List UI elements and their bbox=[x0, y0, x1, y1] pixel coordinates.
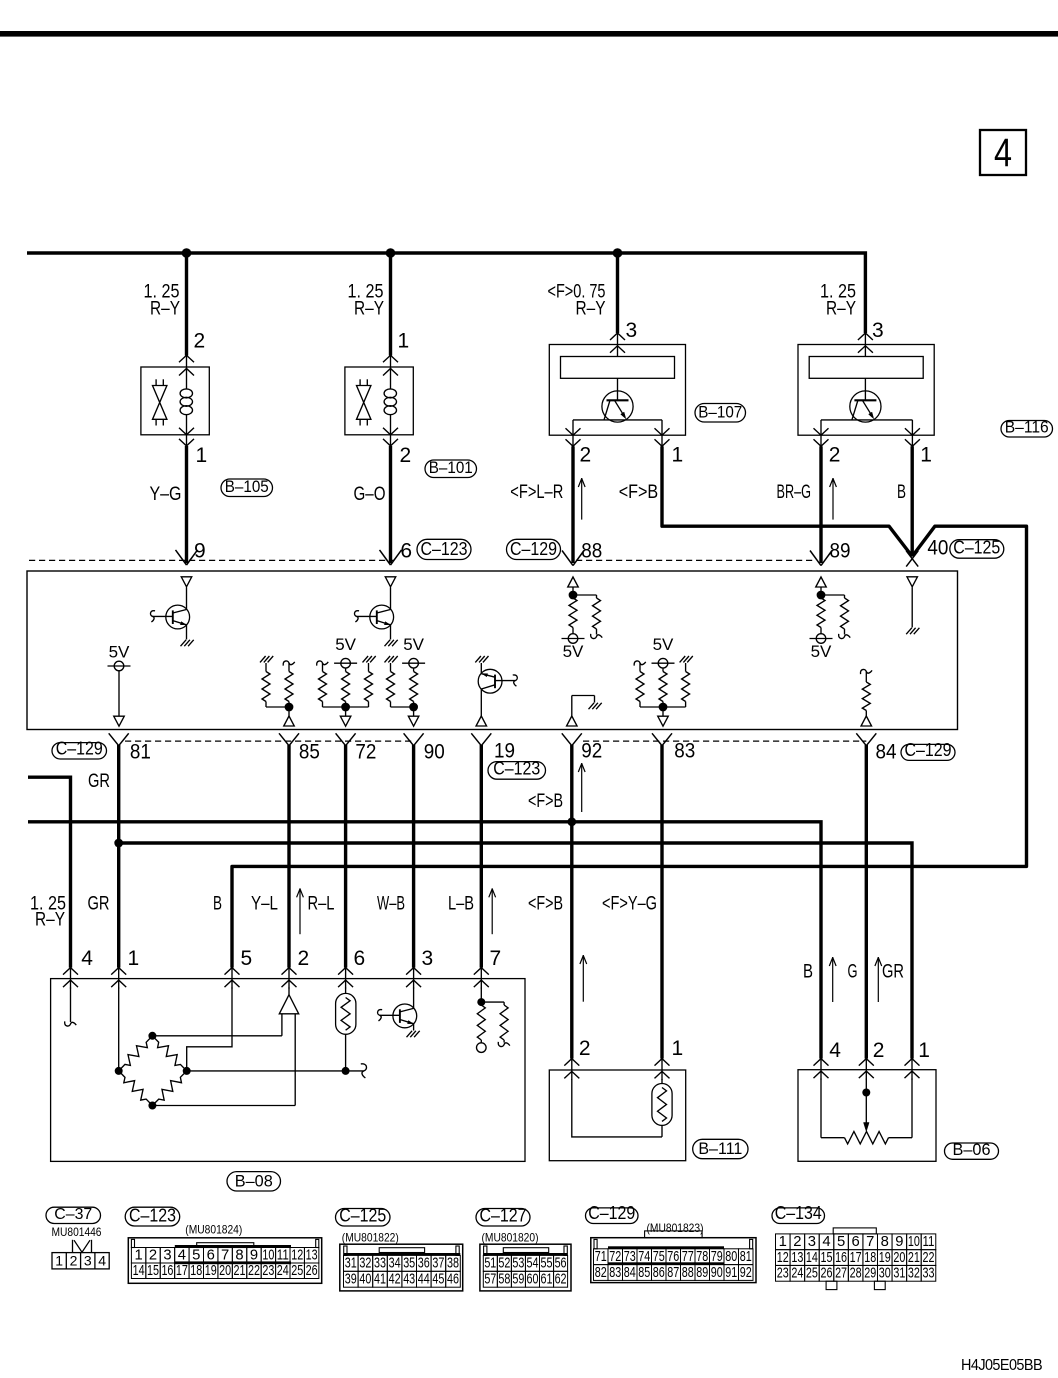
svg-text:24: 24 bbox=[277, 1263, 289, 1279]
svg-text:15: 15 bbox=[820, 1250, 832, 1266]
svg-text:53: 53 bbox=[512, 1256, 524, 1272]
svg-text:C–127: C–127 bbox=[480, 1206, 527, 1226]
junction GR wire to B-06 bbox=[114, 839, 123, 848]
svg-text:5V: 5V bbox=[653, 635, 674, 654]
pin 9 C-123 bbox=[176, 550, 187, 565]
svg-text:C–129: C–129 bbox=[56, 739, 103, 759]
svg-text:3: 3 bbox=[626, 319, 638, 342]
svg-text:19: 19 bbox=[879, 1250, 891, 1266]
svg-text:C–125: C–125 bbox=[953, 538, 1000, 558]
svg-text:5: 5 bbox=[192, 1247, 200, 1263]
svg-text:R–L: R–L bbox=[308, 894, 335, 915]
connector C-37 pin table bbox=[52, 1253, 109, 1269]
svg-text:C–123: C–123 bbox=[493, 759, 540, 779]
svg-text:35: 35 bbox=[403, 1256, 415, 1272]
B-08 bridge resistor top-right bbox=[152, 1036, 186, 1071]
svg-text:<F>B: <F>B bbox=[528, 791, 563, 812]
pin 85 C-129 bbox=[279, 733, 289, 745]
svg-text:2: 2 bbox=[579, 1037, 591, 1060]
wire 1.25 R-Y from off-page left to B-08 pin 4 bbox=[28, 777, 71, 967]
svg-text:MU801446: MU801446 bbox=[52, 1225, 102, 1239]
svg-text:B–101: B–101 bbox=[429, 458, 473, 477]
wire pin 19 to B-08 pin 7, L-B bbox=[480, 745, 483, 968]
svg-text:2: 2 bbox=[298, 947, 310, 970]
wire pin 85 to B-08 pin 2, Y-L bbox=[287, 745, 290, 968]
svg-text:9: 9 bbox=[895, 1234, 903, 1250]
svg-text:2: 2 bbox=[829, 444, 841, 467]
junction bus to B-105 bbox=[182, 248, 192, 258]
B-06 wiper arm bbox=[865, 1079, 867, 1093]
arrow up beside pin 88 wire bbox=[581, 478, 583, 520]
svg-text:1: 1 bbox=[779, 1234, 787, 1250]
svg-text:40: 40 bbox=[359, 1272, 371, 1288]
svg-text:<F>B: <F>B bbox=[528, 894, 563, 915]
svg-text:(MU801824): (MU801824) bbox=[185, 1223, 242, 1237]
svg-text:B–06: B–06 bbox=[953, 1140, 991, 1159]
svg-text:20: 20 bbox=[893, 1250, 905, 1266]
resistor with squiggle at pin 88 bbox=[593, 598, 601, 629]
svg-text:<F>B: <F>B bbox=[619, 482, 659, 503]
svg-text:5V: 5V bbox=[109, 643, 130, 662]
svg-text:39: 39 bbox=[345, 1272, 357, 1288]
svg-text:26: 26 bbox=[306, 1263, 318, 1279]
junction bus to B-101 bbox=[386, 248, 396, 258]
pin 81 C-129 bbox=[109, 733, 119, 745]
svg-text:7: 7 bbox=[221, 1247, 229, 1263]
svg-text:G–O: G–O bbox=[354, 484, 386, 505]
svg-text:H4J05E05BB: H4J05E05BB bbox=[961, 1357, 1042, 1374]
svg-text:90: 90 bbox=[424, 741, 445, 764]
svg-text:75: 75 bbox=[653, 1249, 665, 1265]
svg-text:85: 85 bbox=[638, 1265, 650, 1281]
injector B-105 bbox=[141, 367, 209, 435]
B-08 bridge resistor left-top bbox=[119, 1036, 153, 1071]
svg-text:76: 76 bbox=[667, 1249, 679, 1265]
svg-text:5: 5 bbox=[241, 947, 253, 970]
svg-text:89: 89 bbox=[696, 1265, 708, 1281]
svg-text:81: 81 bbox=[130, 741, 151, 764]
connector C-123 label bbox=[125, 1207, 180, 1226]
svg-text:1: 1 bbox=[672, 1037, 684, 1060]
label B-08 bbox=[227, 1172, 281, 1191]
svg-text:5V: 5V bbox=[563, 642, 584, 661]
svg-text:60: 60 bbox=[526, 1272, 538, 1288]
svg-text:2: 2 bbox=[149, 1247, 157, 1263]
svg-text:10: 10 bbox=[262, 1247, 274, 1263]
B-08 resistor pair at pin 7 bbox=[480, 988, 482, 1003]
connector line C-129 bottom-left (dashed) bbox=[125, 740, 414, 742]
svg-text:<F>L–R: <F>L–R bbox=[510, 482, 563, 503]
svg-text:4: 4 bbox=[81, 947, 93, 970]
svg-text:B–111: B–111 bbox=[698, 1139, 742, 1158]
B-06 pin chevrons and numbers bbox=[820, 1059, 822, 1080]
wire bus to B-101 pin 1, 1.25 R-Y bbox=[389, 253, 392, 356]
svg-text:1: 1 bbox=[128, 947, 140, 970]
svg-text:GR: GR bbox=[88, 894, 110, 915]
B-08 transistor at pin 3 bbox=[413, 988, 415, 1009]
svg-text:(MU801820): (MU801820) bbox=[482, 1231, 539, 1245]
svg-text:R–Y: R–Y bbox=[826, 299, 856, 320]
svg-text:5: 5 bbox=[837, 1234, 845, 1250]
svg-text:11: 11 bbox=[922, 1234, 934, 1250]
svg-text:4: 4 bbox=[178, 1247, 186, 1263]
connector C-37 label bbox=[46, 1207, 101, 1223]
svg-text:41: 41 bbox=[374, 1272, 386, 1288]
svg-text:32: 32 bbox=[359, 1256, 371, 1272]
wire junction to B-111 pin 2, <F>B bbox=[570, 822, 573, 1059]
svg-text:73: 73 bbox=[624, 1249, 636, 1265]
svg-text:34: 34 bbox=[389, 1256, 401, 1272]
svg-text:2: 2 bbox=[793, 1234, 801, 1250]
svg-text:62: 62 bbox=[555, 1272, 567, 1288]
svg-text:C–125: C–125 bbox=[339, 1206, 386, 1226]
B-111 pin chevrons bbox=[571, 1059, 573, 1080]
svg-text:45: 45 bbox=[432, 1272, 444, 1288]
svg-text:1: 1 bbox=[920, 444, 932, 467]
svg-text:9: 9 bbox=[194, 540, 206, 563]
svg-text:4: 4 bbox=[822, 1234, 830, 1250]
svg-text:9: 9 bbox=[250, 1247, 258, 1263]
svg-text:13: 13 bbox=[791, 1250, 803, 1266]
B-08 bridge resistor left-bottom bbox=[119, 1071, 153, 1106]
svg-text:18: 18 bbox=[864, 1250, 876, 1266]
wire pin 81 to B-08 pin 1, GR bbox=[117, 745, 120, 968]
svg-text:72: 72 bbox=[609, 1249, 621, 1265]
ECU box bbox=[27, 571, 958, 730]
label C-123 below pin 19 bbox=[488, 762, 546, 780]
svg-text:52: 52 bbox=[498, 1256, 510, 1272]
svg-text:12: 12 bbox=[777, 1250, 789, 1266]
ECU driver transistor for pin 9 bbox=[186, 587, 188, 609]
svg-text:57: 57 bbox=[484, 1272, 496, 1288]
ECU input pin 88: triangle and pull-up network bbox=[568, 577, 579, 587]
svg-text:6: 6 bbox=[852, 1234, 860, 1250]
label C-125 bbox=[950, 540, 1004, 559]
pin 83 C-129 bbox=[652, 733, 662, 745]
svg-text:33: 33 bbox=[374, 1256, 386, 1272]
arrow up beside B-111 pin 2 wire bbox=[582, 955, 584, 1002]
svg-text:71: 71 bbox=[595, 1249, 607, 1265]
svg-text:86: 86 bbox=[653, 1265, 665, 1281]
svg-text:3: 3 bbox=[808, 1234, 816, 1250]
svg-text:31: 31 bbox=[893, 1266, 905, 1282]
label C-123 bbox=[417, 539, 471, 559]
pin 89 C-129 bbox=[810, 551, 821, 566]
svg-text:R–Y: R–Y bbox=[150, 299, 180, 320]
B-08 bridge resistor bottom-right bbox=[152, 1071, 186, 1106]
B-08 wire bridge top node to amplifier bbox=[152, 1035, 282, 1037]
connector line C-129 (dashed) bbox=[576, 559, 814, 561]
svg-text:1: 1 bbox=[55, 1252, 63, 1268]
svg-text:B–105: B–105 bbox=[225, 477, 269, 496]
svg-text:6: 6 bbox=[354, 947, 366, 970]
svg-text:90: 90 bbox=[711, 1265, 723, 1281]
svg-text:83: 83 bbox=[609, 1265, 621, 1281]
svg-text:44: 44 bbox=[418, 1272, 430, 1288]
B-111 internal wire pin 2 bbox=[572, 1079, 662, 1137]
airflow sensor B-08 box bbox=[51, 979, 525, 1162]
svg-text:78: 78 bbox=[696, 1249, 708, 1265]
svg-text:84: 84 bbox=[624, 1265, 636, 1281]
ECU resistor at pin 84 bbox=[860, 669, 872, 674]
svg-text:6: 6 bbox=[207, 1247, 215, 1263]
svg-text:B: B bbox=[803, 962, 813, 983]
svg-text:2: 2 bbox=[70, 1252, 78, 1268]
wire pin 90 to B-08 pin 3, W-B bbox=[412, 745, 415, 968]
page number box 4 bbox=[980, 130, 1026, 175]
svg-text:B–116: B–116 bbox=[1005, 418, 1049, 437]
junction pin 92 wire on <F>B net bbox=[567, 817, 576, 826]
arrow up beside B-08 pin 7 wire bbox=[491, 888, 493, 934]
wire bus to B-107 pin 3, <F>0.75 R-Y bbox=[616, 253, 619, 333]
resistor to 5V at pin 88 bbox=[569, 598, 577, 628]
svg-text:1: 1 bbox=[196, 444, 208, 467]
svg-text:14: 14 bbox=[806, 1250, 818, 1266]
svg-text:3: 3 bbox=[84, 1252, 92, 1268]
connector C-123 pin table bbox=[128, 1238, 321, 1284]
svg-text:W–B: W–B bbox=[377, 894, 405, 915]
ECU pin 92: triangle to ground bbox=[567, 716, 578, 726]
ECU resistor group at pin 90 with 5V bbox=[385, 656, 391, 662]
wire pin 72 to B-08 pin 6, R-L bbox=[344, 745, 347, 968]
wire B-105 pin 1 to C-123 pin 9, Y-G bbox=[185, 446, 188, 563]
ECU resistor group at pin 83 with 5V bbox=[634, 661, 646, 666]
B-08 heater element at pin 6 bbox=[345, 988, 347, 994]
svg-text:88: 88 bbox=[682, 1265, 694, 1281]
svg-text:2: 2 bbox=[400, 444, 412, 467]
svg-text:2: 2 bbox=[873, 1039, 885, 1062]
svg-text:51: 51 bbox=[484, 1256, 496, 1272]
ECU driver transistor for pin 6 bbox=[390, 587, 392, 609]
wire B-107 pin 2 to C-129 pin 88, <F>L-R bbox=[571, 446, 574, 563]
svg-text:58: 58 bbox=[498, 1272, 510, 1288]
svg-text:89: 89 bbox=[830, 540, 851, 563]
svg-text:88: 88 bbox=[581, 540, 602, 563]
svg-text:92: 92 bbox=[740, 1265, 752, 1281]
svg-text:22: 22 bbox=[248, 1263, 260, 1279]
wire <F>B net: off-page left to pin 92 and B-06 pin 4 bbox=[28, 822, 821, 1059]
svg-text:83: 83 bbox=[674, 740, 695, 763]
pin 72 C-129 bbox=[336, 733, 346, 745]
injector B-101 bbox=[345, 367, 413, 435]
pin 6 C-123 bbox=[380, 550, 391, 565]
pin 19 C-123 bbox=[471, 733, 481, 745]
label C-129 bottom right bbox=[901, 744, 955, 760]
connector C-125 label bbox=[336, 1209, 391, 1227]
svg-text:13: 13 bbox=[306, 1247, 318, 1263]
svg-text:<F>Y–G: <F>Y–G bbox=[602, 894, 657, 915]
label B-111 bbox=[693, 1139, 748, 1158]
svg-text:43: 43 bbox=[403, 1272, 415, 1288]
svg-text:2: 2 bbox=[194, 330, 206, 353]
svg-text:85: 85 bbox=[299, 741, 320, 764]
B-06 potentiometer bbox=[820, 1079, 822, 1138]
B-08 pin chevrons and numbers bbox=[70, 968, 72, 989]
svg-text:4: 4 bbox=[829, 1039, 841, 1062]
label B-107 bbox=[695, 404, 746, 423]
svg-text:16: 16 bbox=[835, 1250, 847, 1266]
arrow up beside pin 89 wire bbox=[832, 478, 834, 520]
throttle sensor B-06 box bbox=[798, 1070, 936, 1162]
svg-text:(MU801822): (MU801822) bbox=[342, 1231, 399, 1245]
ECU input transistor at pin 19 bbox=[475, 656, 481, 662]
svg-text:17: 17 bbox=[850, 1250, 862, 1266]
svg-text:26: 26 bbox=[820, 1266, 832, 1282]
svg-text:28: 28 bbox=[850, 1266, 862, 1282]
svg-text:25: 25 bbox=[806, 1266, 818, 1282]
B-08 pin 1 lead to bridge bbox=[118, 988, 120, 1071]
svg-text:79: 79 bbox=[711, 1249, 723, 1265]
arrow up beside B-08 pin 6 wire bbox=[299, 888, 301, 934]
page top border bar bbox=[0, 31, 1058, 37]
svg-text:40: 40 bbox=[927, 537, 948, 560]
svg-text:3: 3 bbox=[872, 319, 884, 342]
svg-text:7: 7 bbox=[490, 947, 502, 970]
resistor with squiggle at pin 89 bbox=[841, 598, 849, 629]
label C-129 bbox=[507, 539, 561, 559]
B-08 wire bridge bottom node to amplifier bbox=[152, 1105, 295, 1107]
svg-text:33: 33 bbox=[922, 1266, 934, 1282]
svg-text:32: 32 bbox=[908, 1266, 920, 1282]
svg-text:30: 30 bbox=[879, 1266, 891, 1282]
svg-text:31: 31 bbox=[345, 1256, 357, 1272]
wire pin 92 to junction, <F>B bbox=[570, 745, 573, 822]
svg-text:42: 42 bbox=[389, 1272, 401, 1288]
ECU input pin 89: triangle and pull-up network bbox=[816, 577, 827, 587]
connector C-134 label bbox=[772, 1208, 825, 1224]
wire pin 83 to B-111 pin 1, <F>Y-G bbox=[660, 745, 663, 1059]
pin 40 C-125 bbox=[906, 551, 918, 567]
svg-text:21: 21 bbox=[908, 1250, 920, 1266]
pin 84 C-129 bbox=[856, 733, 866, 745]
svg-text:5V: 5V bbox=[403, 635, 424, 654]
svg-text:91: 91 bbox=[725, 1265, 737, 1281]
svg-text:4: 4 bbox=[994, 131, 1012, 175]
svg-text:7: 7 bbox=[866, 1234, 874, 1250]
resistor to 5V at pin 89 bbox=[817, 598, 825, 628]
connector C-129 pin table bbox=[591, 1238, 756, 1283]
svg-text:56: 56 bbox=[555, 1256, 567, 1272]
svg-text:B–107: B–107 bbox=[698, 403, 742, 422]
label B-105 bbox=[221, 479, 273, 497]
label B-101 bbox=[425, 460, 477, 478]
wire bus to B-105 pin 2, 1.25 R-Y bbox=[185, 253, 188, 356]
svg-text:23: 23 bbox=[777, 1266, 789, 1282]
oxygen sensor B-111 box bbox=[549, 1070, 685, 1161]
arrows beside B-06 wires bbox=[832, 957, 834, 1002]
svg-text:5V: 5V bbox=[811, 642, 832, 661]
connector line C-123 (dashed) bbox=[29, 559, 395, 561]
svg-text:12: 12 bbox=[291, 1247, 303, 1263]
svg-text:22: 22 bbox=[922, 1250, 934, 1266]
svg-text:8: 8 bbox=[881, 1234, 889, 1250]
svg-text:46: 46 bbox=[447, 1272, 459, 1288]
svg-text:R–Y: R–Y bbox=[354, 299, 384, 320]
svg-text:B–08: B–08 bbox=[235, 1172, 273, 1191]
svg-text:36: 36 bbox=[418, 1256, 430, 1272]
connector line C-129 bottom-right (dashed) bbox=[583, 740, 866, 742]
svg-text:R–Y: R–Y bbox=[576, 299, 606, 320]
svg-text:55: 55 bbox=[541, 1256, 553, 1272]
svg-text:72: 72 bbox=[355, 741, 376, 764]
svg-text:4: 4 bbox=[98, 1252, 106, 1268]
svg-text:87: 87 bbox=[667, 1265, 679, 1281]
B-08 amplifier arrow symbol bbox=[288, 988, 290, 995]
svg-text:B: B bbox=[897, 482, 906, 503]
connector C-127 label bbox=[476, 1209, 530, 1227]
svg-text:2: 2 bbox=[580, 444, 592, 467]
svg-text:19: 19 bbox=[205, 1263, 217, 1279]
svg-text:80: 80 bbox=[725, 1249, 737, 1265]
label B-06 bbox=[945, 1143, 999, 1159]
svg-text:27: 27 bbox=[835, 1266, 847, 1282]
svg-text:3: 3 bbox=[163, 1247, 171, 1263]
B-08 wire pin 5 to bridge right node bbox=[187, 988, 232, 1071]
B-08 bridge nodes bbox=[115, 1067, 123, 1075]
ignition coil B-116 bbox=[798, 345, 934, 436]
wire B-116 pin 2 to C-129 pin 89, BR-G bbox=[819, 446, 822, 563]
svg-text:25: 25 bbox=[291, 1263, 303, 1279]
ECU resistor group at pin 85 bbox=[260, 656, 266, 662]
svg-text:5V: 5V bbox=[335, 635, 356, 654]
arrow up beside pin 92 wire bbox=[581, 763, 583, 812]
svg-text:77: 77 bbox=[682, 1249, 694, 1265]
svg-text:37: 37 bbox=[432, 1256, 444, 1272]
svg-text:11: 11 bbox=[277, 1247, 289, 1263]
ignition coil B-107 bbox=[549, 345, 685, 436]
pin 88 C-129 bbox=[562, 551, 573, 566]
label B-116 bbox=[1001, 421, 1053, 438]
wire C-125 pin 40 branch to right margin and down to B-08 pin 5 bbox=[232, 526, 1027, 967]
svg-text:Y–G: Y–G bbox=[150, 484, 182, 505]
wire GR branch to B-06 pin 1 bbox=[119, 843, 912, 1059]
svg-text:17: 17 bbox=[176, 1263, 188, 1279]
svg-text:54: 54 bbox=[526, 1256, 538, 1272]
ECU output pin 9: triangle bbox=[181, 577, 192, 587]
svg-text:GR: GR bbox=[882, 962, 904, 983]
junction bus to B-107 bbox=[613, 248, 623, 258]
svg-text:15: 15 bbox=[147, 1263, 159, 1279]
connector C-129 label bbox=[586, 1208, 639, 1224]
B-08 wire bridge right node to squiggle bbox=[187, 1070, 364, 1072]
pin 90 C-129 bbox=[404, 733, 414, 745]
svg-text:23: 23 bbox=[262, 1263, 274, 1279]
ECU pin 40: triangle to ground bbox=[907, 577, 918, 587]
svg-text:1: 1 bbox=[672, 444, 684, 467]
svg-text:59: 59 bbox=[512, 1272, 524, 1288]
svg-text:24: 24 bbox=[791, 1266, 803, 1282]
svg-text:C–37: C–37 bbox=[54, 1206, 92, 1223]
svg-text:1: 1 bbox=[398, 330, 410, 353]
connector C-125 pin table bbox=[340, 1244, 463, 1291]
svg-text:3: 3 bbox=[422, 947, 434, 970]
svg-text:8: 8 bbox=[235, 1247, 243, 1263]
ECU output pin 6: triangle bbox=[385, 577, 396, 587]
wire B-101 pin 2 to C-123 pin 6, G-O bbox=[389, 446, 392, 563]
svg-text:1: 1 bbox=[918, 1039, 930, 1062]
svg-text:21: 21 bbox=[234, 1263, 246, 1279]
svg-text:C–129: C–129 bbox=[510, 539, 557, 559]
svg-text:GR: GR bbox=[88, 771, 110, 792]
svg-text:C–129: C–129 bbox=[905, 740, 952, 760]
svg-text:G: G bbox=[848, 962, 858, 983]
svg-text:C–123: C–123 bbox=[129, 1206, 176, 1226]
svg-text:C–123: C–123 bbox=[421, 539, 468, 559]
svg-text:38: 38 bbox=[447, 1256, 459, 1272]
svg-text:82: 82 bbox=[595, 1265, 607, 1281]
ECU resistor group at pin 72 with 5V bbox=[317, 661, 329, 666]
svg-text:B: B bbox=[213, 894, 222, 915]
